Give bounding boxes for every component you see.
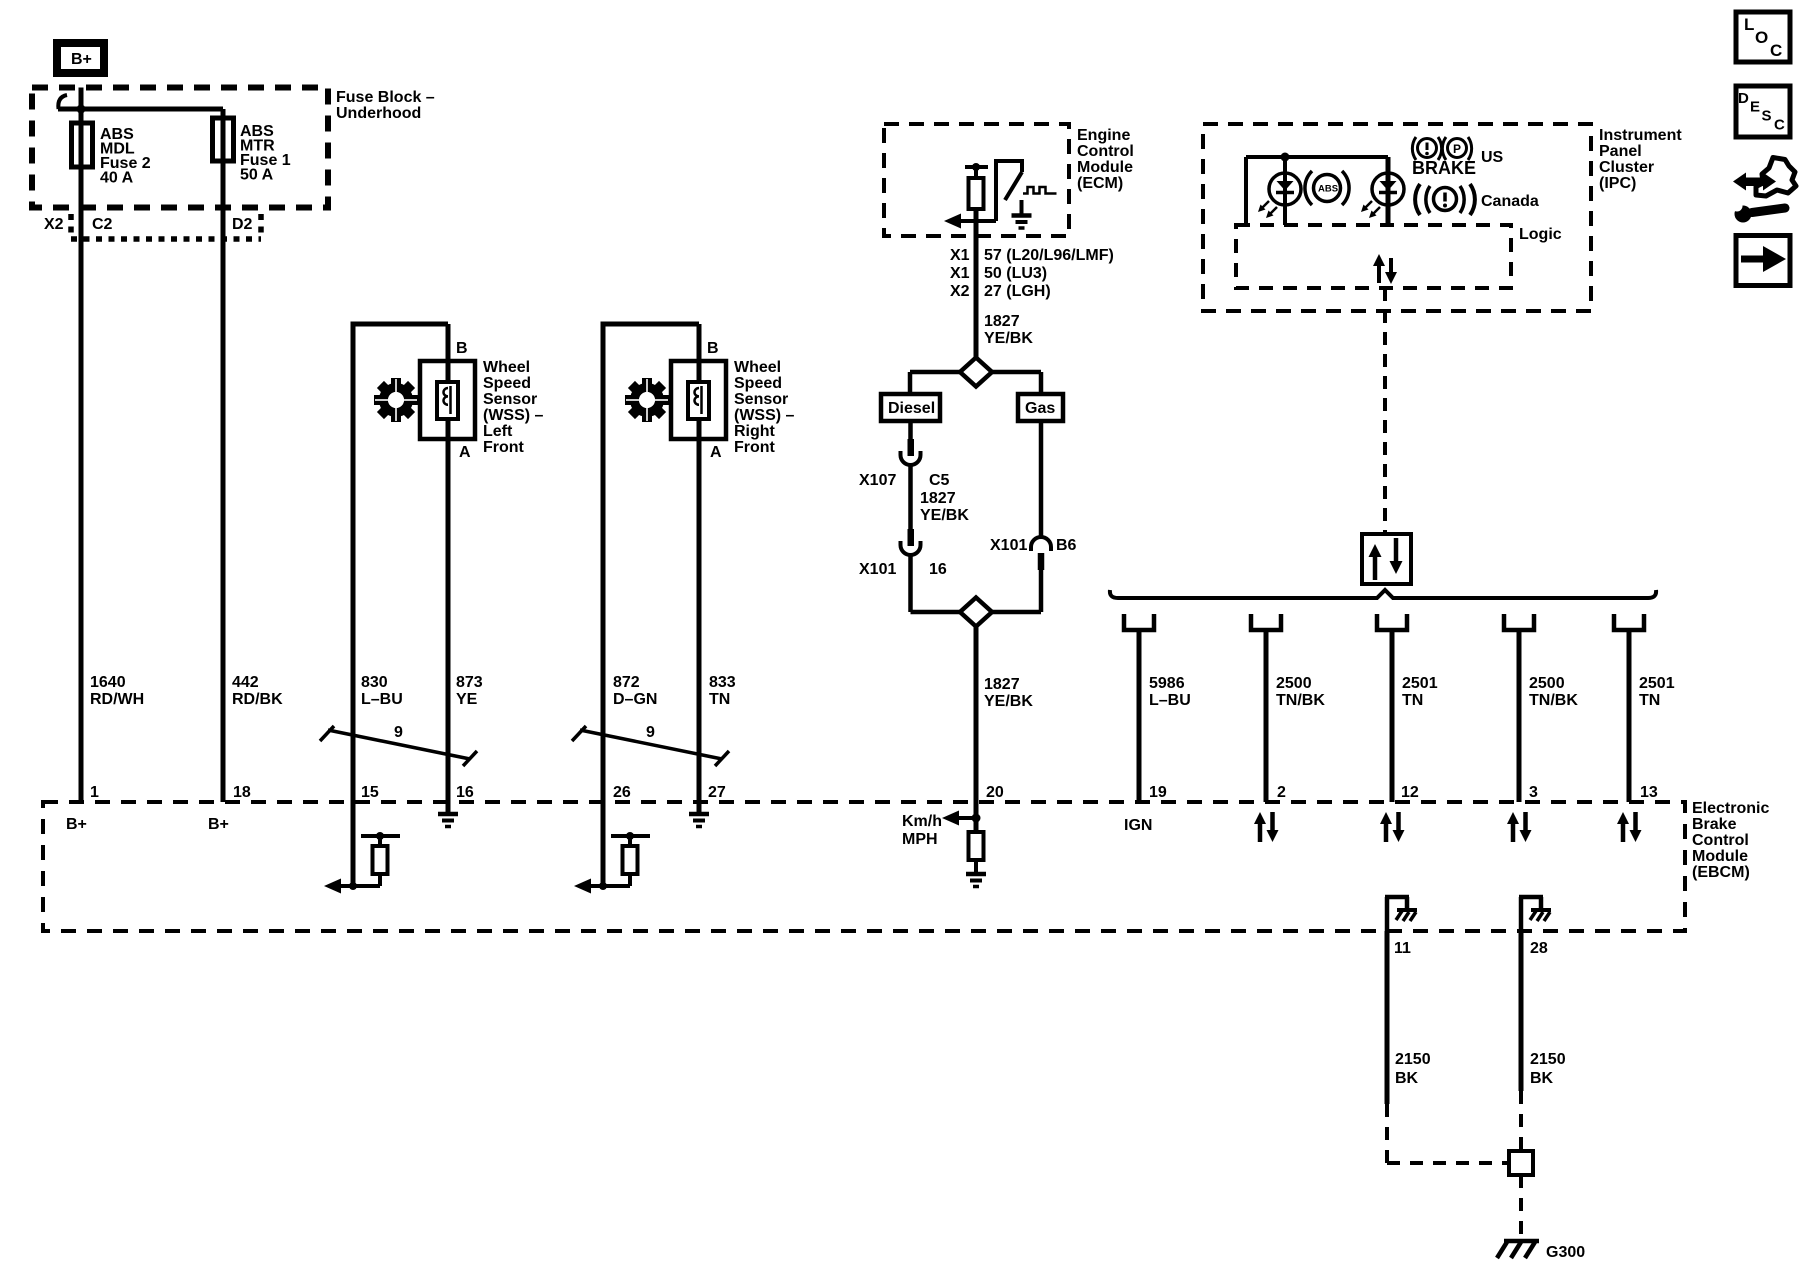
label Canada <box>1481 193 1539 210</box>
pin number 13 <box>1640 784 1658 801</box>
svg-text:BK: BK <box>1395 1070 1419 1087</box>
wire dashed serial data IPC to EBCM <box>1383 288 1387 534</box>
svg-text:Speed: Speed <box>483 375 531 392</box>
svg-text:Sensor: Sensor <box>734 391 788 408</box>
svg-text:B6: B6 <box>1056 537 1077 554</box>
svg-text:YE/BK: YE/BK <box>984 330 1033 347</box>
svg-text:TN: TN <box>1639 692 1660 709</box>
wire connector X107 to connector X101-16 <box>908 465 913 530</box>
svg-text:2501: 2501 <box>1639 675 1675 692</box>
svg-text:(WSS) –: (WSS) – <box>483 407 544 424</box>
pin B label WSS-LF <box>456 340 468 357</box>
wire label 872 D-GN <box>613 674 657 708</box>
terminal fork pin 19 <box>1124 614 1154 802</box>
svg-text:Sensor: Sensor <box>483 391 537 408</box>
svg-text:830: 830 <box>361 674 388 691</box>
label Wheel Speed Sensor (WSS) - Right Front <box>734 359 795 456</box>
wire WSS-RF right leg through sensor (pin 27 run) <box>697 324 702 802</box>
svg-text:TN/BK: TN/BK <box>1276 692 1325 709</box>
svg-text:28: 28 <box>1530 940 1548 957</box>
svg-text:Gas: Gas <box>1025 400 1055 417</box>
wire WSS-RF loop top and left leg (pin 26 run) <box>603 322 699 803</box>
pin number 20 <box>986 784 1004 801</box>
wire Gas box to connector X101-B6 <box>1039 421 1044 539</box>
wire diamond to Gas branch <box>992 372 1041 394</box>
label X101 B6 <box>990 537 1077 554</box>
LED indicator ABS lamp <box>1258 173 1301 218</box>
gear tone ring icon WSS-LF <box>374 378 418 422</box>
pulse signal symbol <box>1023 187 1057 194</box>
LED indicator BRAKE lamp <box>1361 173 1404 218</box>
box Gas <box>1018 394 1063 421</box>
wire WSS-LF right leg through sensor (pin 16 run) <box>446 324 451 802</box>
node B+ battery feed box <box>53 39 108 77</box>
gear tone ring icon WSS-RF <box>625 378 669 422</box>
splice S-box to ground <box>1509 1151 1533 1175</box>
svg-text:YE: YE <box>456 691 478 708</box>
fuse ABS MTR Fuse 1 50 A <box>213 118 291 184</box>
wheel speed sensor WSS-LF body <box>420 361 475 439</box>
wire resistor to output with left arrow <box>944 209 996 833</box>
svg-text:Control: Control <box>1077 143 1134 160</box>
svg-text:B+: B+ <box>71 51 92 68</box>
pin number 28 <box>1530 940 1548 957</box>
label BRAKE US <box>1412 149 1504 178</box>
wire label 442 RD/BK <box>232 674 283 708</box>
wire label 873 YE <box>456 674 483 708</box>
wire label 1827 YE/BK upper <box>984 313 1033 347</box>
serial data transceiver box with arrows <box>1362 534 1411 584</box>
svg-text:57 (L20/L96/LMF): 57 (L20/L96/LMF) <box>984 247 1114 264</box>
svg-text:P: P <box>1453 142 1461 156</box>
svg-text:X1: X1 <box>950 247 970 264</box>
svg-text:MPH: MPH <box>902 831 938 848</box>
resistor ECM internal <box>969 178 984 209</box>
ECM pin rows X1 57 X1 50 X2 27 <box>950 247 1114 300</box>
svg-text:B+: B+ <box>208 816 229 833</box>
wire label 5986 L-BU <box>1149 675 1191 709</box>
bidirectional arrows in Logic box <box>1373 254 1397 284</box>
svg-text:A: A <box>710 444 722 461</box>
wire gas branch to lower diamond <box>992 570 1041 612</box>
svg-text:16: 16 <box>456 784 474 801</box>
svg-text:50 A: 50 A <box>240 167 274 184</box>
svg-text:Canada: Canada <box>1481 193 1539 210</box>
icon (P) park brake US <box>1442 137 1471 160</box>
Logic dashed box <box>1236 225 1511 288</box>
up down arrows EBCM pin 3 <box>1507 812 1532 842</box>
splice diamond lower <box>960 598 992 627</box>
svg-text:E: E <box>1750 99 1760 116</box>
pin number 2 <box>1277 784 1286 801</box>
svg-text:1827: 1827 <box>920 490 956 507</box>
svg-text:C: C <box>1774 117 1785 134</box>
svg-text:(ECM): (ECM) <box>1077 175 1123 192</box>
label X101 16 <box>859 561 947 578</box>
svg-text:L: L <box>1744 15 1754 34</box>
icon ((!)) brake warning Canada <box>1415 184 1475 215</box>
chassis ground EBCM pin 28 internal <box>1519 897 1551 931</box>
Instrument Panel Cluster IPC dashed box <box>1203 124 1591 311</box>
svg-text:Diesel: Diesel <box>888 400 935 417</box>
svg-text:X2: X2 <box>44 216 64 233</box>
node B+ label pin 1 <box>66 816 87 833</box>
pin A label WSS-RF <box>710 444 722 461</box>
svg-text:BRAKE: BRAKE <box>1412 158 1476 178</box>
pin number 11 <box>1394 940 1411 957</box>
svg-text:1: 1 <box>90 784 99 801</box>
svg-text:Wheel: Wheel <box>734 359 781 376</box>
wire label 830 L-BU <box>361 674 403 708</box>
wire Diesel box to connector X107 <box>908 421 913 440</box>
pin number 26 <box>613 784 631 801</box>
wire WSS-LF loop top and left leg (pin 15 run) <box>353 322 448 803</box>
node IGN label pin 19 <box>1124 817 1152 834</box>
svg-text:L–BU: L–BU <box>361 691 403 708</box>
wire B+ vertical feed to ABS MDL fuse (pin 1 run) <box>79 88 84 803</box>
icon LOC hotlink box <box>1736 12 1790 62</box>
ground EBCM pin 27 internal <box>689 802 709 827</box>
svg-text:X101: X101 <box>990 537 1027 554</box>
svg-text:9: 9 <box>646 724 655 741</box>
connector X101 B6 inline female male <box>1031 537 1051 570</box>
junction dot at B+ feed split <box>77 105 86 114</box>
wire label 2500 TN/BK second <box>1529 675 1578 709</box>
label Logic <box>1519 226 1562 243</box>
svg-text:Panel: Panel <box>1599 143 1642 160</box>
wire diamond to Diesel branch <box>910 372 960 394</box>
Electronic Brake Control Module EBCM dashed box <box>43 802 1685 931</box>
EBCM pin 26 internal bias network arrow resistor <box>574 802 650 894</box>
wire label 2501 TN first <box>1402 675 1438 709</box>
svg-text:18: 18 <box>233 784 251 801</box>
svg-text:Module: Module <box>1692 848 1748 865</box>
svg-text:1640: 1640 <box>90 674 126 691</box>
svg-text:D: D <box>1738 90 1749 107</box>
svg-text:Underhood: Underhood <box>336 105 421 122</box>
svg-text:873: 873 <box>456 674 483 691</box>
wire through ABS LED <box>1283 157 1287 225</box>
pin number 27 <box>708 784 726 801</box>
svg-text:D–GN: D–GN <box>613 691 657 708</box>
chassis ground EBCM pin 11 internal <box>1385 897 1417 931</box>
label Instrument Panel Cluster (IPC) <box>1599 127 1682 192</box>
svg-text:B: B <box>707 340 719 357</box>
pin number 1 <box>90 784 99 801</box>
connector X107 C5 inline male female <box>901 439 921 465</box>
svg-text:C: C <box>1770 41 1782 60</box>
svg-text:US: US <box>1481 149 1504 166</box>
terminal fork pin 3 <box>1504 614 1534 802</box>
wire pin 11 ground run 2150 BK <box>1387 931 1509 1163</box>
svg-text:ABS: ABS <box>1318 184 1338 195</box>
svg-text:Logic: Logic <box>1519 226 1562 243</box>
twisted pair mark 9 right <box>572 724 729 766</box>
icon (ABS) telltale <box>1305 171 1349 205</box>
svg-text:15: 15 <box>361 784 379 801</box>
pin number 18 <box>233 784 251 801</box>
svg-text:40 A: 40 A <box>100 170 134 187</box>
ground G300 chassis <box>1497 1241 1585 1261</box>
svg-text:27: 27 <box>708 784 726 801</box>
pin number 12 <box>1401 784 1419 801</box>
svg-text:Km/h: Km/h <box>902 813 942 830</box>
wire label 1827 YE/BK lower <box>984 676 1033 710</box>
wire label 2150 BK left <box>1395 1051 1431 1087</box>
svg-text:S: S <box>1762 108 1772 125</box>
svg-text:L–BU: L–BU <box>1149 692 1191 709</box>
label Wheel Speed Sensor (WSS) - Left Front <box>483 359 544 456</box>
twisted pair mark 9 left <box>320 724 477 766</box>
EBCM pin 15 internal bias network arrow resistor <box>324 802 400 894</box>
wheel speed sensor WSS-RF body <box>671 361 726 439</box>
wire IPC top bus <box>1246 157 1388 225</box>
junction dot IPC bus <box>1281 153 1290 162</box>
ground ECM internal <box>1012 200 1032 228</box>
connector X101 16 inline male female <box>901 529 921 555</box>
svg-text:RD/BK: RD/BK <box>232 691 283 708</box>
up down arrows EBCM pin 2 <box>1254 812 1279 842</box>
pin number 3 <box>1529 784 1538 801</box>
label Engine Control Module (ECM) <box>1077 127 1134 192</box>
svg-text:2500: 2500 <box>1276 675 1312 692</box>
svg-text:26: 26 <box>613 784 631 801</box>
svg-text:YE/BK: YE/BK <box>984 693 1033 710</box>
svg-text:27 (LGH): 27 (LGH) <box>984 283 1051 300</box>
svg-text:Brake: Brake <box>1692 816 1737 833</box>
wire through BRAKE LED <box>1386 157 1391 225</box>
svg-text:TN: TN <box>1402 692 1423 709</box>
wire label 2150 BK right <box>1530 1051 1566 1087</box>
svg-text:1827: 1827 <box>984 313 1020 330</box>
svg-text:BK: BK <box>1530 1070 1554 1087</box>
svg-text:Wheel: Wheel <box>483 359 530 376</box>
svg-text:IGN: IGN <box>1124 817 1152 834</box>
ground EBCM pin 16 internal <box>438 802 458 827</box>
svg-text:442: 442 <box>232 674 259 691</box>
icon forward arrow box <box>1736 236 1790 286</box>
up down arrows EBCM pin 13 <box>1617 812 1642 842</box>
svg-text:(WSS) –: (WSS) – <box>734 407 795 424</box>
wire label 1640 RD/WH <box>90 674 144 708</box>
svg-text:2150: 2150 <box>1395 1051 1431 1068</box>
svg-text:Instrument: Instrument <box>1599 127 1682 144</box>
svg-text:O: O <box>1755 28 1768 47</box>
pin B label WSS-RF <box>707 340 719 357</box>
svg-text:16: 16 <box>929 561 947 578</box>
svg-text:Speed: Speed <box>734 375 782 392</box>
up down arrows EBCM pin 12 <box>1380 812 1405 842</box>
svg-text:Left: Left <box>483 423 513 440</box>
wire dashed splice to G300 <box>1519 1175 1523 1238</box>
svg-text:A: A <box>459 444 471 461</box>
wire label 2501 TN second <box>1639 675 1675 709</box>
EBCM pin 20 internal VSS buffer Km/h MPH <box>902 811 986 887</box>
svg-text:Front: Front <box>483 439 525 456</box>
box Diesel <box>881 394 940 421</box>
connector X2 dotted interface with cavities C2 and D2 <box>44 214 261 239</box>
svg-text:5986: 5986 <box>1149 675 1185 692</box>
Engine Control Module ECM dashed box <box>884 124 1069 236</box>
svg-text:3: 3 <box>1529 784 1538 801</box>
terminal fork pin 2 <box>1251 614 1281 802</box>
svg-text:2501: 2501 <box>1402 675 1438 692</box>
svg-text:Engine: Engine <box>1077 127 1130 144</box>
wire diesel branch to lower diamond <box>911 555 961 612</box>
svg-text:872: 872 <box>613 674 640 691</box>
svg-text:X1: X1 <box>950 265 970 282</box>
svg-text:50 (LU3): 50 (LU3) <box>984 265 1047 282</box>
svg-text:Electronic: Electronic <box>1692 800 1769 817</box>
svg-text:19: 19 <box>1149 784 1167 801</box>
svg-text:Fuse Block –: Fuse Block – <box>336 89 435 106</box>
pin number 16 <box>456 784 474 801</box>
svg-text:Module: Module <box>1077 159 1133 176</box>
svg-text:C5: C5 <box>929 472 950 489</box>
svg-text:X107: X107 <box>859 472 896 489</box>
switch ECM driver <box>996 161 1022 221</box>
svg-text:833: 833 <box>709 674 736 691</box>
icon (!) brake warning US <box>1412 137 1441 160</box>
wire label 1827 YE/BK diesel segment <box>920 490 969 524</box>
terminal fork pin 12 <box>1377 614 1407 802</box>
pin number 19 <box>1149 784 1167 801</box>
label Fuse Block - Underhood <box>336 89 435 122</box>
brace bus spanning EBCM serial pins <box>1110 590 1656 598</box>
svg-text:X2: X2 <box>950 283 970 300</box>
svg-text:11: 11 <box>1394 940 1411 957</box>
svg-text:2: 2 <box>1277 784 1286 801</box>
pin A label WSS-LF <box>459 444 471 461</box>
svg-text:2150: 2150 <box>1530 1051 1566 1068</box>
svg-text:TN: TN <box>709 691 730 708</box>
svg-text:TN/BK: TN/BK <box>1529 692 1578 709</box>
svg-text:YE/BK: YE/BK <box>920 507 969 524</box>
Fuse Block - Underhood dashed box <box>32 88 328 208</box>
svg-text:D2: D2 <box>232 216 253 233</box>
svg-text:1827: 1827 <box>984 676 1020 693</box>
fuse ABS MDL Fuse 2 40 A <box>72 123 151 187</box>
label Electronic Brake Control Module (EBCM) <box>1692 800 1769 881</box>
svg-text:Front: Front <box>734 439 776 456</box>
wire vertical drop to ABS MTR fuse (pin 18 run) <box>221 109 226 802</box>
wire B+ horizontal feed with hook terminal <box>58 95 223 109</box>
svg-text:Right: Right <box>734 423 776 440</box>
wire label 833 TN <box>709 674 736 708</box>
svg-text:X101: X101 <box>859 561 896 578</box>
terminal fork pin 13 <box>1614 614 1644 802</box>
svg-text:B+: B+ <box>66 816 87 833</box>
ECM internal pull-up node with junction dot <box>965 163 988 178</box>
svg-text:Cluster: Cluster <box>1599 159 1654 176</box>
svg-text:20: 20 <box>986 784 1004 801</box>
svg-text:G300: G300 <box>1546 1244 1585 1261</box>
svg-text:(IPC): (IPC) <box>1599 175 1636 192</box>
wire label 2500 TN/BK first <box>1276 675 1325 709</box>
wire pin 28 ground run 2150 BK <box>1519 931 1524 1151</box>
svg-text:C2: C2 <box>92 216 113 233</box>
svg-text:(EBCM): (EBCM) <box>1692 864 1750 881</box>
svg-text:2500: 2500 <box>1529 675 1565 692</box>
svg-text:9: 9 <box>394 724 403 741</box>
pin number 15 <box>361 784 379 801</box>
label X107 C5 <box>859 472 950 489</box>
node B+ label pin 18 <box>208 816 229 833</box>
svg-text:RD/WH: RD/WH <box>90 691 144 708</box>
splice diamond upper <box>960 358 992 387</box>
icon diagnostic arrows and wrench <box>1732 158 1797 223</box>
svg-text:13: 13 <box>1640 784 1658 801</box>
icon DESC hotlink box <box>1736 86 1790 137</box>
svg-text:12: 12 <box>1401 784 1419 801</box>
svg-text:Control: Control <box>1692 832 1749 849</box>
svg-text:B: B <box>456 340 468 357</box>
